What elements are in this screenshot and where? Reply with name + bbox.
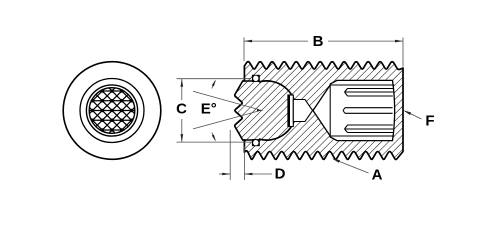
dimension D arrow left outside [219, 173, 230, 175]
svg-text:D: D [275, 166, 286, 183]
dimension C arrow bottom [181, 134, 184, 142]
dimension D arrow right outside [244, 173, 272, 175]
dimension C extension line top [177, 78, 252, 80]
hex socket cavity (white) [313, 80, 395, 140]
dimension B extension line left [243, 38, 245, 62]
svg-text:E°: E° [201, 101, 217, 118]
knurl node dots [91, 89, 134, 132]
svg-text:A: A [372, 167, 383, 184]
angle E upper ray [193, 91, 259, 109]
follower flange [288, 95, 293, 127]
threaded body section fill [235, 62, 403, 160]
svg-text:F: F [425, 113, 434, 130]
dimension C extension line bottom [177, 141, 252, 143]
leader F arrowhead [403, 110, 411, 115]
dimension D extension line left [229, 130, 231, 180]
hex socket flats lines [330, 85, 394, 136]
dimension C arrow top [181, 79, 184, 87]
leader line A [334, 159, 369, 173]
leader A arrowhead [332, 159, 340, 163]
follower neck and cone [293, 100, 312, 122]
upper retaining lip block [252, 75, 260, 82]
dimension B line [244, 40, 308, 42]
nose pocket top edge line [244, 80, 256, 82]
nose pocket bottom edge line [244, 139, 256, 141]
dimension B arrow right [395, 40, 403, 43]
angle E lower ray [193, 111, 259, 129]
dimension D extension line right [243, 146, 245, 180]
leader line F [405, 111, 422, 119]
angle E lower arc arrow [212, 133, 216, 141]
knurl diamond pattern on front face [89, 88, 135, 134]
front view outer body circle [63, 62, 161, 160]
follower flange thick left edge [287, 95, 290, 128]
angle E vertex arrow [257, 109, 264, 111]
section hatching [130, 45, 495, 170]
dimension B extension line right [402, 38, 404, 67]
front view knurl rim inner circle [89, 88, 135, 134]
svg-text:C: C [176, 101, 187, 118]
dimension C line [181, 79, 183, 100]
ball (sectioned, visible arc) [259, 81, 296, 140]
front view knurl rim outer circle [86, 85, 137, 136]
front view shoulder circle [80, 79, 144, 143]
body outline stroke [235, 62, 403, 160]
dimension B arrow left [244, 40, 252, 43]
svg-text:B: B [313, 33, 324, 50]
angle E upper arc arrow [212, 81, 216, 89]
lower retaining lip block [252, 139, 260, 146]
